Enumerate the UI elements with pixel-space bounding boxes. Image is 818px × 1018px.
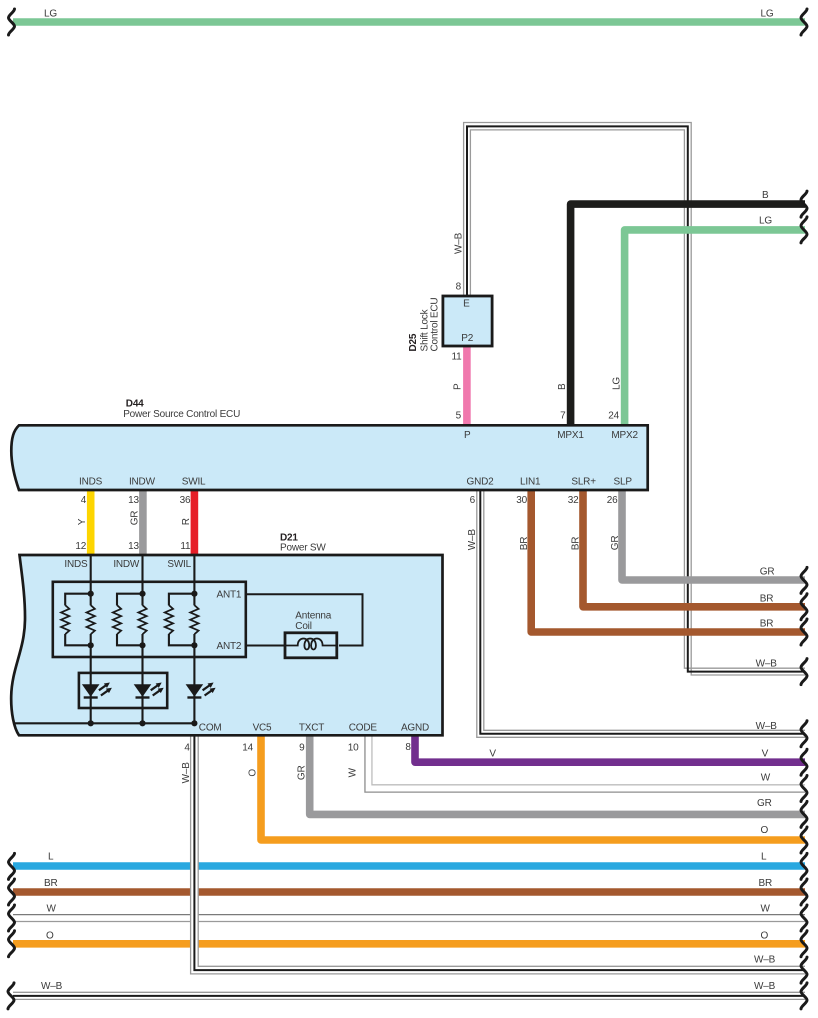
svg-text:V: V: [762, 749, 769, 760]
svg-text:GR: GR: [610, 536, 621, 551]
svg-text:9: 9: [299, 743, 305, 754]
svg-text:32: 32: [568, 495, 579, 506]
svg-text:SWIL: SWIL: [167, 559, 191, 570]
svg-text:Power SW: Power SW: [280, 542, 326, 553]
svg-text:Power Source Control ECU: Power Source Control ECU: [123, 409, 240, 420]
svg-text:INDS: INDS: [64, 559, 88, 570]
svg-text:13: 13: [128, 495, 139, 506]
svg-text:LIN1: LIN1: [520, 477, 541, 488]
svg-text:GND2: GND2: [467, 477, 495, 488]
svg-text:BR: BR: [760, 619, 774, 630]
svg-text:BR: BR: [571, 537, 582, 551]
svg-text:BR: BR: [760, 593, 774, 604]
svg-text:VC5: VC5: [253, 723, 272, 734]
svg-text:W–B: W–B: [181, 762, 192, 784]
svg-text:SLP: SLP: [614, 477, 633, 488]
svg-text:O: O: [46, 931, 54, 942]
svg-text:MPX2: MPX2: [611, 430, 638, 441]
svg-text:COM: COM: [199, 723, 222, 734]
svg-text:8: 8: [456, 282, 462, 293]
svg-text:V: V: [489, 749, 496, 760]
svg-text:D25: D25: [408, 333, 419, 351]
svg-text:12: 12: [75, 541, 86, 552]
svg-text:L: L: [761, 852, 767, 863]
svg-text:Coil: Coil: [295, 621, 311, 632]
svg-text:O: O: [761, 931, 769, 942]
svg-text:Control ECU: Control ECU: [430, 298, 441, 352]
svg-text:CODE: CODE: [349, 723, 378, 734]
svg-text:INDW: INDW: [129, 477, 156, 488]
svg-text:SWIL: SWIL: [182, 477, 206, 488]
svg-text:14: 14: [242, 743, 253, 754]
svg-text:7: 7: [560, 411, 566, 422]
svg-text:30: 30: [516, 495, 527, 506]
svg-text:W–B: W–B: [41, 981, 63, 992]
svg-text:O: O: [248, 769, 259, 777]
svg-text:24: 24: [608, 411, 619, 422]
svg-text:BR: BR: [759, 878, 773, 889]
svg-text:ANT1: ANT1: [217, 589, 242, 600]
svg-text:L: L: [48, 852, 54, 863]
svg-text:4: 4: [81, 495, 87, 506]
svg-text:BR: BR: [519, 537, 530, 551]
svg-text:W–B: W–B: [754, 955, 776, 966]
svg-text:36: 36: [180, 495, 191, 506]
svg-text:O: O: [761, 825, 769, 836]
svg-text:SLR+: SLR+: [571, 477, 596, 488]
svg-text:11: 11: [452, 352, 463, 363]
svg-text:Y: Y: [77, 518, 88, 525]
svg-text:W: W: [47, 904, 57, 915]
svg-text:W–B: W–B: [756, 659, 778, 670]
svg-text:INDW: INDW: [113, 559, 140, 570]
svg-text:MPX1: MPX1: [557, 430, 584, 441]
svg-text:GR: GR: [757, 798, 772, 809]
svg-text:W: W: [761, 773, 771, 784]
svg-text:W–B: W–B: [467, 529, 478, 551]
svg-text:P: P: [464, 430, 471, 441]
svg-text:GR: GR: [296, 765, 307, 780]
svg-text:E: E: [463, 299, 470, 310]
svg-text:ANT2: ANT2: [217, 641, 242, 652]
svg-text:W: W: [348, 767, 359, 777]
svg-text:P2: P2: [461, 333, 473, 344]
svg-text:GR: GR: [760, 567, 775, 578]
svg-text:LG: LG: [759, 216, 772, 227]
svg-text:GR: GR: [130, 511, 141, 526]
svg-text:13: 13: [128, 541, 139, 552]
svg-text:LG: LG: [611, 377, 622, 390]
svg-text:BR: BR: [44, 878, 58, 889]
svg-text:TXCT: TXCT: [299, 723, 324, 734]
svg-text:R: R: [181, 518, 192, 525]
svg-text:D44: D44: [126, 399, 144, 410]
svg-text:B: B: [762, 190, 769, 201]
svg-text:26: 26: [607, 495, 618, 506]
svg-text:W–B: W–B: [754, 981, 776, 992]
svg-text:W–B: W–B: [454, 232, 465, 254]
svg-text:4: 4: [184, 743, 190, 754]
svg-text:P: P: [453, 383, 464, 390]
svg-text:LG: LG: [761, 9, 774, 20]
svg-text:AGND: AGND: [401, 723, 429, 734]
svg-text:6: 6: [470, 495, 476, 506]
svg-text:W: W: [761, 904, 771, 915]
svg-text:11: 11: [180, 541, 191, 552]
svg-text:B: B: [557, 383, 568, 390]
svg-text:INDS: INDS: [79, 477, 103, 488]
svg-text:5: 5: [456, 411, 462, 422]
svg-text:10: 10: [348, 743, 359, 754]
svg-text:W–B: W–B: [756, 721, 778, 732]
svg-text:8: 8: [405, 742, 411, 753]
svg-text:LG: LG: [44, 9, 57, 20]
